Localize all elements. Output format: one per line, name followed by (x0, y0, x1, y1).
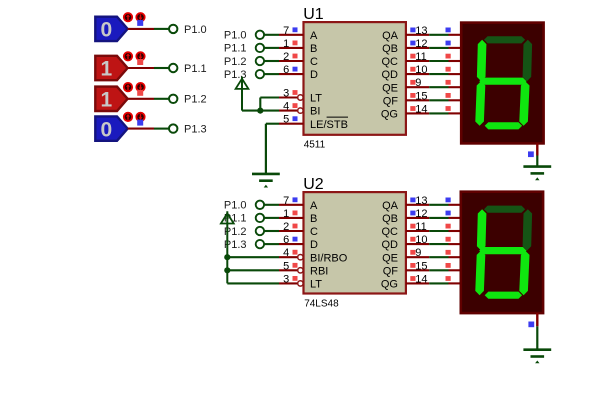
terminal P1.0 at U2 (256, 201, 264, 209)
pin 11 U2 QC stub (406, 224, 429, 231)
pin 4 U1 BI (279, 103, 303, 113)
svg-text:0: 0 (100, 19, 112, 42)
pin 13 U1 QA stub (406, 28, 429, 35)
wire P1.2 to U1 pin 2 (264, 60, 279, 62)
svg-text:1: 1 (283, 38, 289, 50)
pin name D U2 (310, 239, 318, 251)
7-segment display DS2 body (461, 192, 543, 313)
terminal P1.3 at U2 (256, 240, 264, 248)
terminal P1.0 left (169, 25, 177, 33)
logicstate P1.3 down button (136, 113, 144, 121)
svg-text:P1.3: P1.3 (184, 124, 207, 136)
terminal P1.1 at U2 (256, 214, 264, 222)
wire junction to BI U1 (260, 110, 279, 112)
pin number 5 U1 (283, 114, 289, 126)
display1 common pin stub (536, 143, 538, 155)
label P1.2 at U2 (224, 226, 247, 238)
svg-text:BI: BI (310, 106, 320, 118)
pin 14 U2 QG stub (406, 276, 429, 283)
terminal P1.3 at U1 (256, 70, 264, 78)
logicstate P1.3 toggle body (95, 116, 127, 141)
segment G DS1 (on) (479, 78, 526, 85)
svg-text:5: 5 (283, 114, 289, 126)
pin name BI/RBO U2 (310, 252, 348, 264)
pin name QA U2 (382, 200, 399, 212)
display1 pin QE stub (446, 80, 462, 87)
pin 1 U1 B (279, 41, 304, 48)
display2 pin QC stub (446, 224, 461, 231)
pin 7 U1 A (279, 27, 304, 34)
logicstate P1.1 down button (136, 52, 144, 60)
svg-text:13: 13 (415, 195, 427, 207)
svg-text:14: 14 (415, 103, 427, 115)
svg-text:3: 3 (283, 273, 289, 285)
pin number 13 U1 (415, 25, 427, 37)
logicstate P1.1 up button (124, 52, 132, 60)
wire P1.1 to U1 pin 1 (264, 47, 279, 49)
svg-text:LT: LT (310, 93, 322, 105)
junction node U1 BI (257, 108, 263, 114)
svg-text:12: 12 (415, 208, 427, 220)
svg-text:B: B (310, 43, 317, 55)
display1 pin QA stub (446, 28, 462, 35)
pin name LT U1 (310, 93, 322, 105)
terminal P1.2 at U1 (256, 57, 264, 65)
svg-text:P1.0: P1.0 (184, 24, 207, 36)
svg-text:5: 5 (283, 260, 289, 272)
pin number 12 U1 (415, 38, 427, 50)
logic square at DS2 common (528, 322, 534, 328)
logicstate P1.0 down button (136, 13, 144, 21)
pin number 15 U2 (415, 260, 427, 272)
pin 9 U2 QE stub (406, 250, 429, 257)
segment D DS2 (on) (485, 292, 522, 299)
label P1.0 at U1 (224, 30, 247, 42)
wire U2 QE to display (429, 256, 448, 258)
terminal P1.1 left (169, 64, 177, 72)
pin number 15 U1 (415, 90, 427, 102)
svg-text:QG: QG (381, 279, 398, 291)
pin 12 U1 QB stub (406, 41, 429, 48)
pin name QB U1 (382, 43, 398, 55)
pin number 6 U2 (283, 234, 289, 246)
segment A DS1 (off) (484, 36, 525, 43)
svg-text:14: 14 (415, 273, 427, 285)
pin name QE U1 (382, 82, 398, 94)
ground at U1 LE/STB (252, 124, 280, 188)
terminal P1.0 at U1 (256, 31, 264, 39)
label P1.1 (184, 63, 207, 75)
svg-text:9: 9 (415, 77, 421, 89)
segment B DS1 (off) (523, 40, 533, 81)
pin number 13 U2 (415, 195, 427, 207)
logicstate P1.0 toggle body (95, 17, 127, 42)
svg-text:P1.0: P1.0 (224, 30, 247, 42)
wire U2 QF to display (429, 269, 448, 271)
pin number 1 U2 (283, 208, 289, 220)
label U2 (303, 176, 324, 193)
wire P1.2 to U2 pin 2 (264, 230, 279, 232)
svg-text:QA: QA (382, 30, 399, 42)
display2 pin QG stub (446, 276, 461, 283)
svg-text:BI/RBO: BI/RBO (310, 252, 348, 264)
label U1 (303, 6, 324, 23)
svg-text:4: 4 (283, 101, 289, 113)
label P1.3 at U2 (224, 239, 247, 251)
svg-text:9: 9 (415, 247, 421, 259)
wire U1 QF to display (429, 99, 448, 101)
pin number 3 U1 (283, 88, 289, 100)
pin name LE/STB U1 with overline (310, 117, 348, 131)
svg-text:4: 4 (283, 247, 289, 259)
segment F DS1 (on) (477, 40, 487, 81)
pin number 12 U2 (415, 208, 427, 220)
wire U1 QG to display (429, 112, 448, 114)
pin number 3 U2 (283, 273, 289, 285)
terminal P1.2 at U2 (256, 227, 264, 235)
svg-text:1: 1 (100, 89, 112, 112)
pin name QD U1 (382, 69, 399, 81)
label P1.2 (184, 94, 207, 106)
svg-text:15: 15 (415, 90, 427, 102)
pin 4 U2 BI/RBO (279, 250, 303, 260)
label P1.2 at U1 (224, 56, 247, 68)
segment A DS2 (off) (484, 206, 525, 213)
svg-text:15: 15 (415, 260, 427, 272)
svg-text:74LS48: 74LS48 (304, 299, 339, 310)
wire logicstate P1.2 (154, 98, 169, 100)
pin name C U2 (310, 226, 318, 238)
power symbol VCC at U2 (221, 211, 234, 283)
pin name QC U1 (382, 56, 399, 68)
label P1.0 at U2 (224, 200, 247, 212)
display2 pin QA stub (446, 198, 461, 205)
svg-text:A: A (310, 200, 318, 212)
pin number 11 U1 (415, 51, 426, 63)
pin number 7 U2 (283, 195, 289, 207)
pin 2 U2 C (279, 224, 304, 231)
svg-text:QA: QA (382, 200, 399, 212)
svg-text:QB: QB (382, 43, 398, 55)
svg-text:7: 7 (283, 195, 289, 207)
logicstate P1.0 state square (137, 20, 143, 26)
wire logicstate P1.3 stub (128, 128, 154, 130)
pin number 5 U2 (283, 260, 289, 272)
label P1.1 at U2 (224, 213, 247, 225)
wire P1.1 to U2 pin 1 (264, 217, 279, 219)
svg-text:D: D (310, 69, 318, 81)
junction node U2 BI/RBO (224, 254, 230, 260)
label P1.0 (184, 24, 207, 36)
pin name QF U2 (383, 265, 399, 277)
wire logicstate P1.3 (154, 128, 169, 130)
junction node U2 RBI (224, 267, 230, 273)
logicstate P1.2 up button (124, 83, 132, 91)
segment G DS2 (on) (479, 247, 526, 254)
pin number 9 U2 (415, 247, 421, 259)
display1 pin QG stub (446, 106, 462, 113)
pin 6 U2 D (279, 237, 304, 244)
svg-text:10: 10 (415, 234, 427, 246)
pin number 2 U2 (283, 221, 289, 233)
pin name A U1 (310, 30, 318, 42)
pin number 2 U1 (283, 51, 289, 63)
svg-text:A: A (310, 30, 318, 42)
logicstate P1.3 state square (137, 120, 143, 126)
logicstate P1.1 toggle body (95, 56, 127, 81)
wire logicstate P1.2 stub (128, 98, 154, 100)
pin 11 U1 QC stub (406, 54, 429, 61)
segment E DS1 (on) (475, 81, 485, 126)
pin name QD U2 (382, 239, 399, 251)
svg-text:P1.1: P1.1 (224, 43, 247, 55)
wire logicstate P1.1 (154, 67, 169, 69)
svg-text:P1.2: P1.2 (184, 94, 207, 106)
pin number 10 U2 (415, 234, 427, 246)
pin 5 U1 LE/STB (279, 116, 304, 123)
wire U2 QC to display (429, 230, 448, 232)
svg-text:U1: U1 (303, 6, 324, 23)
svg-text:LT: LT (310, 279, 322, 291)
pin name B U2 (310, 213, 317, 225)
svg-text:QD: QD (382, 69, 399, 81)
label P1.3 at U1 (224, 69, 247, 81)
segment F DS2 (on) (477, 209, 487, 250)
svg-text:11: 11 (415, 221, 426, 233)
display1 pin QB stub (446, 41, 462, 48)
wire rail to RBI U2 (227, 269, 279, 271)
pin 15 U2 QF stub (406, 263, 429, 270)
wire power to junction U1 (242, 110, 260, 112)
svg-text:10: 10 (415, 64, 427, 76)
wire U2 QD to display (429, 243, 448, 245)
pin name QC U2 (382, 226, 399, 238)
wire logicstate P1.0 stub (128, 28, 154, 30)
label 74LS48 (304, 299, 339, 310)
segment C DS1 (on) (519, 81, 529, 126)
terminal P1.3 left (169, 124, 177, 132)
wire P1.3 to U1 pin 6 (264, 73, 279, 75)
svg-text:QF: QF (383, 265, 399, 277)
wire P1.0 to U1 pin 7 (264, 34, 279, 36)
pin name D U1 (310, 69, 318, 81)
display1 pin QC stub (446, 54, 462, 61)
svg-text:C: C (310, 56, 318, 68)
pin 1 U2 B (279, 211, 304, 218)
pin number 6 U1 (283, 64, 289, 76)
pin 7 U2 A (279, 197, 304, 204)
pin 3 U2 LT (279, 276, 303, 286)
pin 10 U1 QD stub (406, 67, 429, 74)
segment D DS1 (on) (485, 122, 522, 129)
display2 common pin stub (536, 313, 538, 326)
wire U1 QB to display (429, 47, 448, 49)
display2 pin QE stub (446, 250, 461, 257)
wire U1 QE to display (429, 86, 448, 88)
label P1.1 at U1 (224, 43, 247, 55)
wire U2 QB to display (429, 217, 448, 219)
op U2 74LS48 chip body (304, 192, 406, 293)
wire rail to BI/RBO U2 (227, 256, 279, 258)
wire logicstate P1.0 (154, 28, 169, 30)
segment C DS2 (on) (519, 251, 529, 296)
wire U2 QA to display (429, 204, 448, 206)
svg-text:QF: QF (383, 95, 399, 107)
pin number 14 U2 (415, 273, 427, 285)
label 4511 (304, 140, 326, 151)
svg-text:QB: QB (382, 213, 398, 225)
svg-text:2: 2 (283, 221, 289, 233)
svg-text:3: 3 (283, 88, 289, 100)
pin number 4 U2 (283, 247, 289, 259)
pin number 7 U1 (283, 25, 289, 37)
pin number 14 U1 (415, 103, 427, 115)
pin name A U2 (310, 200, 318, 212)
logic square at DS1 common (528, 151, 534, 157)
7-segment display DS1 body (461, 23, 543, 144)
pin name LT U2 (310, 279, 322, 291)
segment E DS2 (on) (475, 251, 485, 296)
pin name QG U1 (381, 109, 398, 121)
label P1.3 (184, 124, 207, 136)
pin number 9 U1 (415, 77, 421, 89)
svg-text:6: 6 (283, 64, 289, 76)
wire rail to LT U2 (227, 282, 279, 284)
svg-text:QD: QD (382, 239, 399, 251)
svg-text:QE: QE (382, 252, 398, 264)
svg-text:11: 11 (415, 51, 426, 63)
svg-text:P1.1: P1.1 (184, 63, 207, 75)
op U1 4511 chip body (304, 22, 406, 135)
wire LE/STB to ground (266, 123, 279, 125)
pin name QE U2 (382, 252, 398, 264)
terminal P1.1 at U1 (256, 44, 264, 52)
svg-text:RBI: RBI (310, 265, 328, 277)
pin number 10 U1 (415, 64, 427, 76)
terminal P1.2 left (169, 95, 177, 103)
svg-text:6: 6 (283, 234, 289, 246)
wire logicstate P1.1 stub (128, 67, 154, 69)
pin number 1 U1 (283, 38, 289, 50)
svg-text:LE/STB: LE/STB (310, 119, 348, 131)
svg-text:2: 2 (283, 51, 289, 63)
svg-text:B: B (310, 213, 317, 225)
svg-text:13: 13 (415, 25, 427, 37)
pin 14 U1 QG stub (406, 106, 429, 113)
logicstate P1.2 state square (137, 90, 143, 96)
pin name QF U1 (383, 95, 399, 107)
pin number 4 U1 (283, 101, 289, 113)
logicstate P1.3 up button (124, 113, 132, 121)
pin 9 U1 QE stub (406, 80, 429, 87)
pin 5 U2 RBI (279, 263, 303, 273)
svg-text:12: 12 (415, 38, 427, 50)
svg-text:P1.0: P1.0 (224, 200, 247, 212)
svg-text:QC: QC (382, 56, 399, 68)
power symbol VCC at U1 (236, 77, 249, 111)
wire P1.3 to U2 pin 6 (264, 243, 279, 245)
svg-text:1: 1 (100, 58, 112, 81)
display2 pin QD stub (446, 237, 461, 244)
pin 3 U1 LT (279, 90, 303, 100)
wire U1 QC to display (429, 60, 448, 62)
logicstate P1.1 state square (137, 59, 143, 65)
wire U2 QG to display (429, 282, 448, 284)
pin name QB U2 (382, 213, 398, 225)
wire U1 QD to display (429, 73, 448, 75)
pin name C U1 (310, 56, 318, 68)
pin number 11 U2 (415, 221, 426, 233)
pin 13 U2 QA stub (406, 198, 429, 205)
svg-text:QC: QC (382, 226, 399, 238)
pin name BI U1 (310, 106, 320, 118)
svg-text:D: D (310, 239, 318, 251)
pin name RBI U2 (310, 265, 328, 277)
ground at DS1 (523, 156, 551, 181)
wire junction to LT U1 (260, 98, 279, 112)
ground at DS2 (523, 326, 551, 363)
logicstate P1.0 up button (124, 13, 132, 21)
segment B DS2 (off) (523, 209, 533, 250)
svg-text:7: 7 (283, 25, 289, 37)
svg-text:0: 0 (100, 118, 112, 141)
wire U1 QA to display (429, 34, 448, 36)
logicstate P1.2 down button (136, 83, 144, 91)
svg-text:QG: QG (381, 109, 398, 121)
logicstate P1.2 toggle body (95, 87, 127, 112)
svg-text:1: 1 (283, 208, 289, 220)
svg-text:4511: 4511 (304, 140, 326, 151)
wire P1.0 to U2 pin 7 (264, 204, 279, 206)
pin name B U1 (310, 43, 317, 55)
pin name QG U2 (381, 279, 398, 291)
svg-text:U2: U2 (303, 176, 324, 193)
svg-text:P1.2: P1.2 (224, 56, 247, 68)
display1 pin QF stub (446, 93, 462, 100)
display2 pin QB stub (446, 211, 461, 218)
pin 10 U2 QD stub (406, 237, 429, 244)
pin 2 U1 C (279, 54, 304, 61)
display2 pin QF stub (446, 263, 461, 270)
pin 15 U1 QF stub (406, 93, 429, 100)
pin name QA U1 (382, 30, 399, 42)
pin 12 U2 QB stub (406, 211, 429, 218)
svg-text:QE: QE (382, 82, 398, 94)
pin 6 U1 D (279, 67, 304, 74)
display1 pin QD stub (446, 67, 462, 74)
svg-text:C: C (310, 226, 318, 238)
